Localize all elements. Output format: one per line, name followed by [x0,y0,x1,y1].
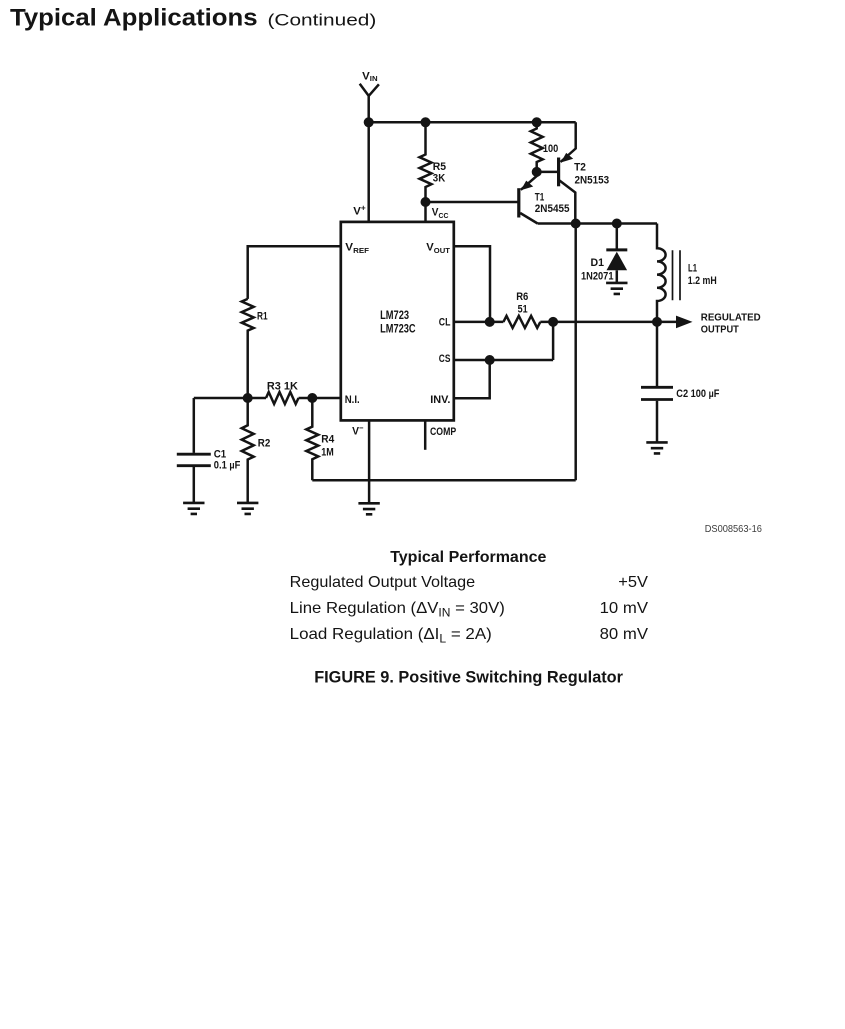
wire switch node horizontal [538,222,657,225]
node junction R3/R4 [307,393,317,403]
capacitor C1 [177,454,211,466]
capacitor C2 [656,322,659,386]
wire CL to R6 [454,321,504,324]
transistor T2 body [557,158,560,187]
output arrow head [676,316,693,329]
svg-text:R3 1K: R3 1K [267,381,298,393]
transistor T2 collector wire [560,181,576,224]
svg-text:R1: R1 [257,310,268,322]
resistor R2 [242,398,254,503]
svg-text:2N5153: 2N5153 [575,175,610,187]
inductor L1 [657,224,666,322]
wire V- to ground [368,420,371,503]
svg-text:0.1 μF: 0.1 μF [214,459,241,471]
svg-text:R5: R5 [433,161,446,173]
svg-text:51: 51 [518,304,528,316]
svg-text:T2: T2 [574,162,586,174]
wire N.I. line left [194,397,266,400]
resistor 100-ohm [531,122,543,172]
svg-text:Typical Performance: Typical Performance [390,549,546,566]
wire VOUT to CL node [454,246,490,322]
svg-text:2N5455: 2N5455 [535,203,570,215]
svg-text:Typical Applications: Typical Applications [10,5,258,32]
svg-text:+5V: +5V [618,574,648,591]
svg-text:C2 100 μF: C2 100 μF [676,388,719,400]
ground under D1 [606,283,627,294]
transistor T1 emitter arrow [521,181,533,191]
svg-text:R2: R2 [258,438,271,450]
transistor T1 body [517,188,520,217]
transistor T2 base wire [537,171,558,174]
resistor R1 [242,299,254,398]
svg-text:LM723C: LM723C [380,323,416,335]
svg-text:REGULATED: REGULATED [701,312,761,323]
wire C1 drop [193,398,196,453]
ground under R2 [237,503,258,514]
svg-text:Regulated Output Voltage: Regulated Output Voltage [290,574,476,591]
svg-text:1M: 1M [321,446,334,458]
svg-text:LM723: LM723 [380,310,409,322]
node junction T2 base / T1 emitter [532,167,542,177]
node junction VOUT/CL [485,317,495,327]
node junction VCC/R5/T1-base [421,197,431,207]
transistor T1 collector wire [520,213,537,224]
wire COMP stub [424,420,427,449]
svg-text:N.I.: N.I. [345,394,360,406]
node junction collector/feedback [571,219,581,229]
ground under V- [358,503,379,514]
wire VREF to R1 [248,246,341,299]
diode D1 [616,224,619,249]
node junction D1 [612,219,622,229]
transistor T1 emitter wire [521,172,537,190]
svg-text:80 mV: 80 mV [600,626,649,643]
svg-text:1.2 mH: 1.2 mH [688,275,717,287]
wire R6 to output node [540,321,657,324]
node junction VIN [364,117,374,127]
svg-text:VOUT: VOUT [426,241,450,255]
transistor T2 emitter arrow [561,153,573,163]
ground under C1 [183,503,204,514]
svg-text:10 mV: 10 mV [600,600,649,617]
resistor R6 [503,316,540,328]
node junction R1/R2/R3 [243,393,253,403]
transistor T1 base wire [426,201,519,204]
svg-text:(Continued): (Continued) [268,10,377,29]
resistor R5 [420,122,432,222]
svg-text:1N2071: 1N2071 [581,271,614,283]
svg-text:D1: D1 [591,257,605,269]
svg-text:Line Regulation (ΔVIN = 30V): Line Regulation (ΔVIN = 30V) [290,600,505,620]
wire CS [454,322,553,360]
svg-text:Load Regulation (ΔIL = 2A): Load Regulation (ΔIL = 2A) [290,626,492,646]
svg-text:INV.: INV. [430,394,450,406]
node VIN input symbol [360,84,379,123]
svg-text:R4: R4 [321,433,335,445]
svg-text:OUTPUT: OUTPUT [701,325,739,336]
svg-text:T1: T1 [535,191,545,203]
node junction CS/INV [485,355,495,365]
wire output arrow stem [657,321,677,324]
node junction 100-ohm top [532,117,542,127]
wire V+ from rail to IC [367,122,370,222]
svg-text:R6: R6 [516,291,528,303]
inductor L1 core lines [673,250,681,300]
svg-text:VREF: VREF [345,241,369,255]
wire INV [454,360,490,398]
svg-text:FIGURE 9. Positive Switching R: FIGURE 9. Positive Switching Regulator [314,669,623,687]
IC U1 LM723 box [341,222,454,421]
wire bottom rail [312,479,575,482]
wire N.I. line right [299,397,341,400]
node junction R5 top [421,117,431,127]
svg-text:100: 100 [543,143,558,155]
wire feedback vertical to bottom rail [574,224,577,481]
resistor R4 [306,398,318,480]
wire top rail [369,121,576,124]
ground under C2 [646,442,667,453]
svg-text:3K: 3K [433,172,445,184]
svg-text:COMP: COMP [430,426,456,438]
svg-text:DS008563-16: DS008563-16 [705,524,763,535]
svg-text:L1: L1 [688,263,697,275]
svg-text:V+: V+ [353,203,366,217]
svg-text:VCC: VCC [432,207,449,221]
svg-text:CL: CL [439,317,451,329]
resistor R3 [266,392,299,404]
node output junction [652,317,662,327]
transistor T2 emitter wire [561,122,576,162]
svg-text:V−: V− [352,424,364,438]
svg-text:VIN: VIN [362,71,377,84]
node junction R6/CS [548,317,558,327]
svg-text:CS: CS [439,353,451,365]
